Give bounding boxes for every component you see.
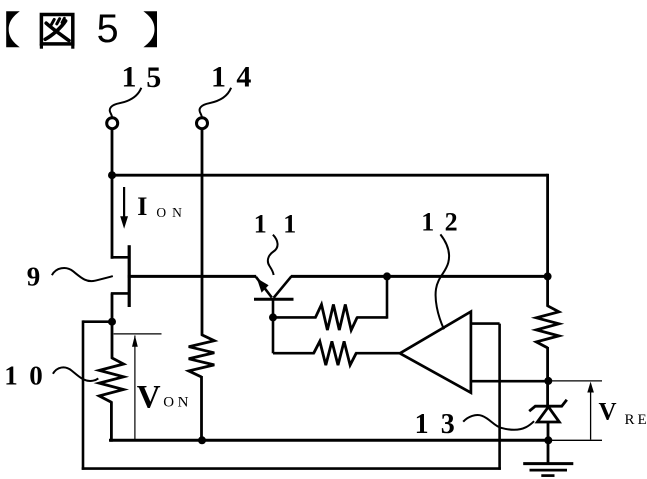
svg-text:9: 9 xyxy=(27,261,41,291)
svg-text:V: V xyxy=(137,380,161,416)
svg-text:1: 1 xyxy=(211,61,226,94)
svg-text:1: 1 xyxy=(254,209,267,238)
svg-text:ON: ON xyxy=(163,394,192,410)
svg-text:4: 4 xyxy=(236,61,251,94)
svg-text:3: 3 xyxy=(441,409,455,440)
svg-text:V: V xyxy=(599,399,617,426)
svg-text:1: 1 xyxy=(415,409,429,440)
svg-text:1: 1 xyxy=(283,209,296,238)
svg-text:ON: ON xyxy=(156,205,188,220)
svg-text:1: 1 xyxy=(4,361,18,391)
svg-text:RE: RE xyxy=(625,412,647,428)
svg-text:1: 1 xyxy=(122,61,137,94)
svg-text:5: 5 xyxy=(97,7,119,51)
svg-text:I: I xyxy=(137,192,147,221)
svg-text:5: 5 xyxy=(146,61,161,94)
svg-text:1: 1 xyxy=(421,207,434,236)
svg-text:2: 2 xyxy=(445,207,458,236)
svg-text:0: 0 xyxy=(29,361,43,391)
